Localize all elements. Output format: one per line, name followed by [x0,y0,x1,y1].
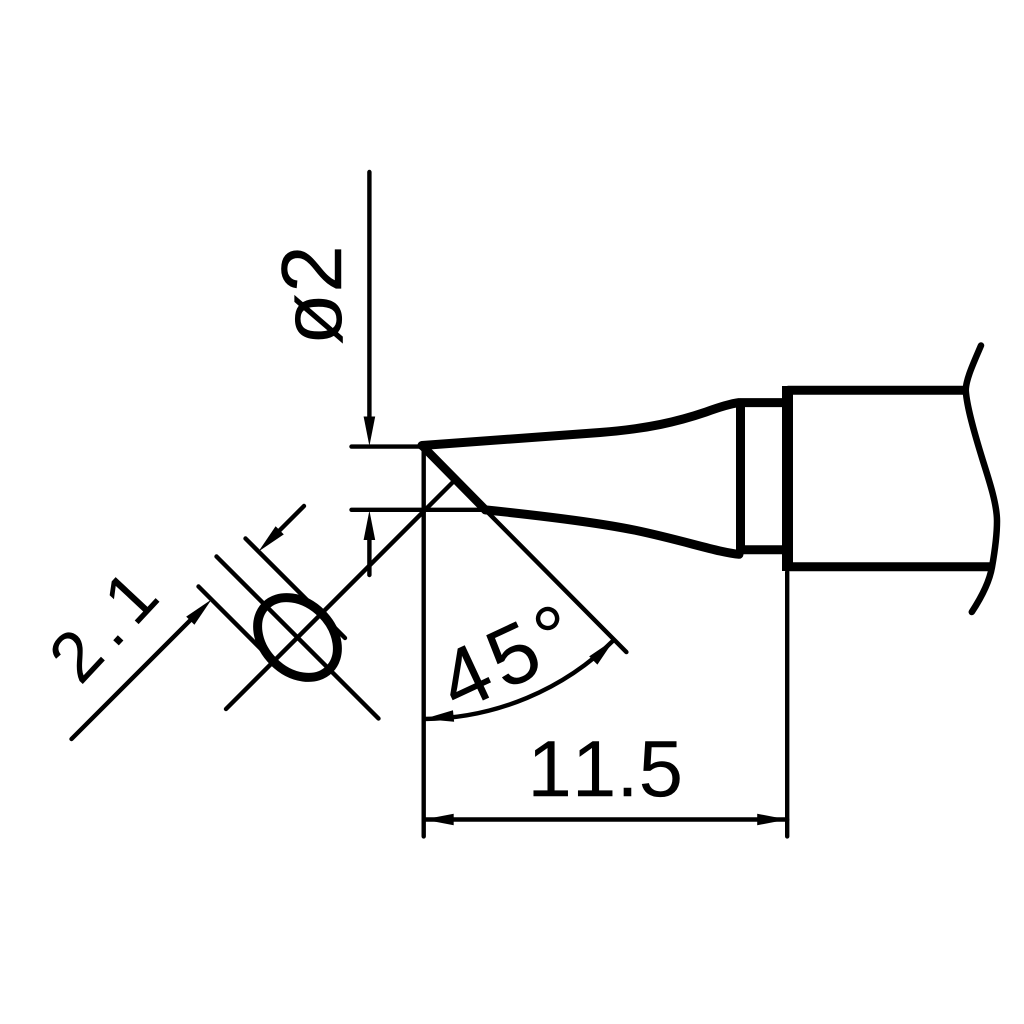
11.5 right extension line [785,572,789,836]
45deg angled leg [485,510,626,652]
45deg arc arrow right [589,639,614,664]
11.5 left arrow [424,814,454,826]
11.5 right arrow [757,814,787,826]
11.5 dimension line [424,817,788,821]
45deg label [433,603,578,713]
ellipse major axis centerline [217,557,379,719]
dia2 dimension line with down arrow [367,172,371,420]
bevel face ellipse [242,582,354,694]
dia2 upper extension tick [352,444,425,448]
dia2 up arrow with tail [364,511,376,541]
sleeve bottom edge [788,562,993,571]
45deg arc [424,639,615,719]
tip body bottom contour [485,510,739,554]
break line (wavy) [966,346,997,613]
dia2 lower extension tick [352,508,486,512]
tip body top contour [422,403,739,446]
2.1 dimension line upper segment with arrow [277,506,304,533]
45deg vertical leg / 11.5 left extension [422,446,426,836]
11.5 label [533,741,679,797]
sleeve top edge [788,386,967,395]
dia2 label [281,249,343,343]
sleeve left edge [782,386,793,571]
2.1 dimension line lower segment with arrow [72,618,194,740]
tip bevel edge [422,446,485,510]
2.1 extension line A [199,587,282,670]
2.1 label [47,568,160,684]
collar ring [741,403,789,550]
ellipse minor axis centerline [226,481,455,710]
2.1 extension line B [246,539,346,639]
45deg arc arrow left [424,710,454,722]
